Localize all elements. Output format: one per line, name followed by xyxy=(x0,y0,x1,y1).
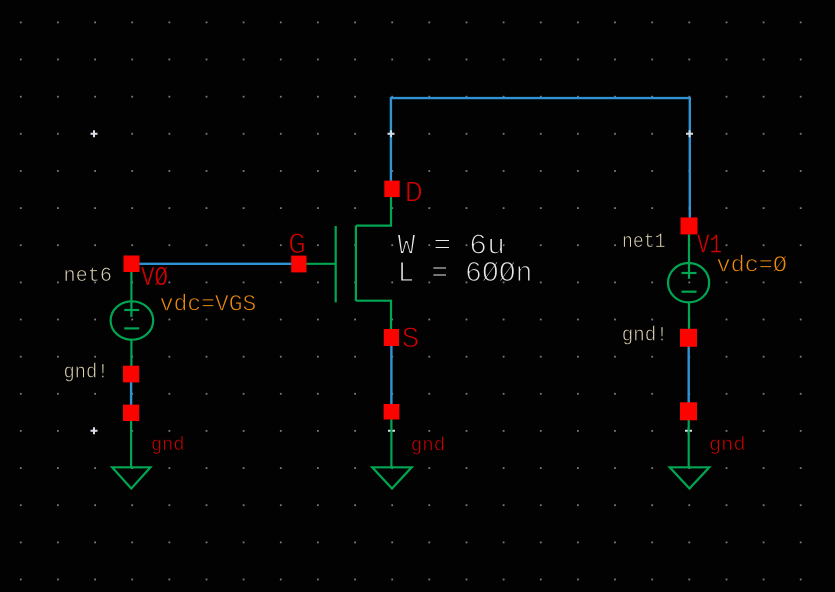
major grid cross marker on wire xyxy=(685,427,692,434)
parameter label vdc=0 xyxy=(717,253,788,279)
vdc source V1 circle xyxy=(668,235,709,330)
pin square net1 / V1 plus terminal xyxy=(681,217,698,234)
svg-text:gnd: gnd xyxy=(709,434,746,456)
pin square gnd top (right) xyxy=(680,402,697,420)
svg-text:vdc=Ø: vdc=Ø xyxy=(717,253,788,279)
svg-text:net1: net1 xyxy=(622,231,666,254)
pin square gnd! (left V0 minus) xyxy=(123,366,139,383)
parameter label L = 600n xyxy=(398,257,533,290)
wire V0 minus to gnd (left) xyxy=(130,382,132,405)
pin label G xyxy=(288,229,306,263)
major grid cross marker xyxy=(91,427,98,434)
net label net6 xyxy=(64,265,113,288)
wire drain net (top route) xyxy=(391,98,690,217)
pin square D drain terminal xyxy=(384,181,399,198)
svg-text:VØ: VØ xyxy=(141,264,168,294)
wire V1 minus to gnd (right) xyxy=(688,347,690,403)
gnd cell label (right) xyxy=(709,434,746,456)
svg-text:gnd: gnd xyxy=(411,435,446,457)
instance name V1 xyxy=(697,232,722,262)
pin square S source terminal xyxy=(384,329,399,346)
ground symbol gnd (middle) xyxy=(372,419,412,489)
wire source to gnd (middle) xyxy=(390,346,392,405)
svg-text:D: D xyxy=(405,177,424,212)
svg-text:G: G xyxy=(288,229,306,263)
pin square net6 / V0 plus terminal xyxy=(124,256,140,273)
pin square gnd! (right V1 minus) xyxy=(680,329,697,347)
major grid cross marker on wire xyxy=(686,130,693,137)
pin label S xyxy=(402,323,420,357)
vdc source V0 circle xyxy=(111,272,154,366)
svg-text:S: S xyxy=(402,323,420,357)
pin square gnd top (middle) xyxy=(384,404,400,420)
parameter label W = 6u xyxy=(398,230,506,263)
svg-text:gnd!: gnd! xyxy=(64,362,109,385)
svg-text:L = 6ØØn: L = 6ØØn xyxy=(398,257,533,290)
svg-text:vdc=VGS: vdc=VGS xyxy=(160,292,256,318)
net label gnd! (right) xyxy=(622,325,668,348)
svg-text:net6: net6 xyxy=(64,265,113,288)
major grid cross marker xyxy=(91,130,98,137)
instance name V0 xyxy=(141,264,168,294)
wire net6 to gate xyxy=(140,263,293,265)
net label net1 xyxy=(622,231,666,254)
pin square gnd top (left) xyxy=(123,405,139,421)
ground symbol gnd (left) xyxy=(112,421,150,489)
pin square G gate terminal xyxy=(291,256,306,273)
ground symbol gnd (right) xyxy=(670,420,710,489)
gnd cell label (left) xyxy=(151,434,185,456)
pin label D xyxy=(405,177,424,212)
major grid cross marker on wire xyxy=(388,427,395,434)
major grid cross marker on wire xyxy=(388,130,395,137)
gnd cell label (middle) xyxy=(411,435,446,457)
svg-text:gnd!: gnd! xyxy=(622,325,668,348)
parameter label vdc=VGS xyxy=(160,292,256,318)
svg-text:gnd: gnd xyxy=(151,434,185,456)
nmos transistor M0 symbol xyxy=(307,197,392,329)
net label gnd! (left) xyxy=(64,362,109,385)
